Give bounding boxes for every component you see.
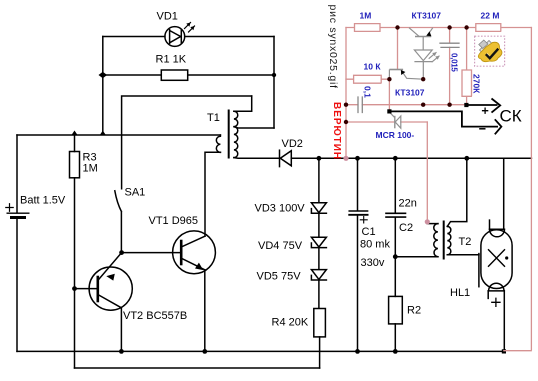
- wire T1 secondary tap: [234, 127, 274, 128]
- svg-text:VD1: VD1: [157, 11, 178, 23]
- diode VD2: [280, 150, 532, 166]
- node LED bottom row: [421, 103, 425, 107]
- svg-text:SA1: SA1: [125, 187, 146, 199]
- wire VD3 chain vertical: [318, 158, 320, 308]
- wire pink right rail: [504, 28, 532, 351]
- transformer T1: [216, 111, 237, 158]
- trigger electrode HL1: [478, 254, 480, 287]
- node T2 secondary top: [464, 156, 469, 161]
- svg-text:HL1: HL1: [450, 287, 470, 299]
- transistor VT2 BC557B: [75, 253, 133, 352]
- transistor VT1 D965: [122, 231, 216, 351]
- label minus output: [479, 128, 485, 130]
- node LED emitter: [421, 77, 425, 81]
- node VD3 chain top: [317, 156, 322, 161]
- output CK plus arrow: [466, 99, 500, 113]
- switch SA1: [115, 191, 122, 253]
- svg-text:0,015: 0,015: [450, 53, 459, 72]
- node 10K gate: [387, 77, 391, 81]
- capacitor C2: [386, 158, 406, 256]
- wire C2 to T2 primary bottom: [395, 256, 438, 258]
- svg-text:10 К: 10 К: [364, 62, 382, 72]
- node output plus square: [464, 103, 468, 107]
- wire MCR to T2: [426, 122, 428, 222]
- wire gate vertical: [388, 79, 390, 109]
- transformer T2: [434, 222, 451, 259]
- wire R1 row: [103, 74, 274, 76]
- svg-text:1M: 1M: [83, 163, 98, 175]
- node pink joins VD2 wire: [343, 156, 348, 161]
- wire T2 secondary top lead: [447, 158, 467, 226]
- label plus output: [482, 108, 488, 114]
- svg-text:80 mk: 80 mk: [360, 239, 390, 251]
- battery Batt 1.5V: [6, 204, 29, 352]
- svg-text:VT1 D965: VT1 D965: [149, 215, 199, 227]
- wire bottom rail 1: [17, 350, 504, 352]
- LED VD1: [165, 23, 195, 47]
- svg-text:VD2: VD2: [282, 138, 303, 150]
- node R1 left: [99, 72, 108, 78]
- node C1 bottom: [355, 349, 360, 354]
- node VT2 collector rail: [119, 349, 124, 354]
- wire SA1 branch top: [122, 96, 252, 189]
- transistor KT3107 lower: [389, 70, 423, 80]
- wire pink bottom row to arrow: [423, 104, 464, 106]
- resistor 22M: [476, 24, 501, 32]
- svg-text:VD3 100V: VD3 100V: [255, 203, 306, 215]
- wire T2 secondary bottom to trigger: [447, 254, 479, 256]
- wire MCR anode row: [346, 121, 427, 123]
- capacitor C1: [349, 158, 367, 351]
- svg-text:1M: 1M: [360, 11, 372, 21]
- svg-text:T2: T2: [459, 236, 472, 248]
- wire T2 primary top lead: [427, 223, 438, 225]
- transistor KT3107 upper: [409, 28, 433, 50]
- node cap 0,1 row left: [344, 103, 348, 107]
- node C1 top: [355, 156, 360, 161]
- wire T1 primary bottom to VT1 collector: [205, 152, 220, 236]
- wire VD1 loop left vertical: [102, 37, 104, 135]
- LED optocoupler: [414, 50, 439, 79]
- wire T1 secondary bottom to VD2: [234, 157, 280, 160]
- thyristor MCR 100: [390, 113, 401, 128]
- lamp HL1: [481, 220, 512, 351]
- svg-text:рис synx025.gif: рис synx025.gif: [327, 5, 339, 89]
- node R2 bottom: [393, 349, 398, 354]
- svg-text:VD5 75V: VD5 75V: [257, 271, 302, 283]
- resistor R3: [70, 135, 80, 368]
- wire top rail to HL1: [503, 158, 505, 229]
- resistor 1M: [355, 24, 381, 32]
- resistor 270K: [462, 70, 472, 96]
- svg-text:VD4 75V: VD4 75V: [258, 240, 303, 252]
- svg-text:T1: T1: [207, 112, 220, 124]
- svg-text:22 М: 22 М: [481, 11, 500, 21]
- node R3 top: [72, 131, 78, 136]
- wire bottom rail 2: [75, 367, 320, 369]
- svg-text:ВЕРЮТИН: ВЕРЮТИН: [331, 102, 342, 160]
- svg-text:Batt 1.5V: Batt 1.5V: [20, 195, 66, 207]
- wire VD1 loop right vertical: [273, 37, 275, 129]
- zener VD4: [311, 237, 326, 247]
- svg-text:КТ3107: КТ3107: [412, 11, 442, 21]
- node MCR row left: [344, 120, 348, 124]
- wire pink top rail: [346, 27, 531, 29]
- node C2 top: [393, 156, 398, 161]
- capacitor 0,1: [346, 97, 423, 113]
- label HL1 plus: [492, 298, 500, 306]
- node 1M-KT3107: [395, 25, 399, 29]
- zener VD5: [311, 270, 326, 280]
- wire left vertical to battery: [16, 135, 18, 212]
- svg-text:22n: 22n: [399, 198, 417, 210]
- svg-text:330v: 330v: [361, 257, 385, 269]
- node pink at T2 primary: [425, 219, 430, 224]
- node VT2 base / R3: [72, 286, 77, 291]
- svg-text:R2: R2: [407, 305, 421, 317]
- zener VD3: [311, 203, 326, 213]
- wire 0,015 vertical: [449, 28, 451, 105]
- node R1 right: [272, 73, 276, 77]
- node 0,015 bottom row: [447, 103, 451, 107]
- output CK minus arrow: [389, 111, 501, 134]
- capacitor 0,015: [440, 43, 460, 47]
- svg-text:VT2 BC557B: VT2 BC557B: [123, 310, 187, 322]
- svg-text:0,1: 0,1: [363, 86, 373, 98]
- svg-text:СК: СК: [500, 107, 522, 126]
- svg-text:R1 1K: R1 1K: [156, 54, 187, 66]
- wire 270K vertical: [466, 28, 468, 104]
- node VD1 loop to rail: [100, 131, 106, 136]
- wire T1 secondary top lead: [234, 96, 252, 111]
- icon picture: [475, 36, 505, 66]
- svg-text:C1: C1: [362, 226, 376, 238]
- svg-text:270К: 270К: [472, 74, 482, 94]
- node 0,015 top: [447, 25, 451, 29]
- wire VD1 top loop: [103, 36, 274, 38]
- resistor R4: [314, 309, 326, 369]
- node C2 bottom: [393, 254, 398, 259]
- svg-text:C2: C2: [399, 222, 413, 234]
- resistor R1: [161, 70, 187, 80]
- node SA1-VT1-VT2: [119, 250, 124, 255]
- node HL1 bottom rail: [502, 349, 506, 353]
- wire main left rail horizontal: [17, 134, 220, 136]
- node MCR gate square: [387, 109, 391, 113]
- node VT1 emitter rail: [202, 349, 207, 354]
- node 270K top: [464, 25, 468, 29]
- svg-text:КТ3107: КТ3107: [395, 88, 425, 98]
- wire KT3107 upper collector vertical to lower: [397, 28, 399, 70]
- wire pink left rail: [345, 28, 347, 159]
- resistor R2: [389, 257, 403, 352]
- resistor 10K: [346, 75, 389, 83]
- svg-text:MCR 100-: MCR 100-: [376, 130, 415, 140]
- svg-text:R4 20K: R4 20K: [272, 317, 309, 329]
